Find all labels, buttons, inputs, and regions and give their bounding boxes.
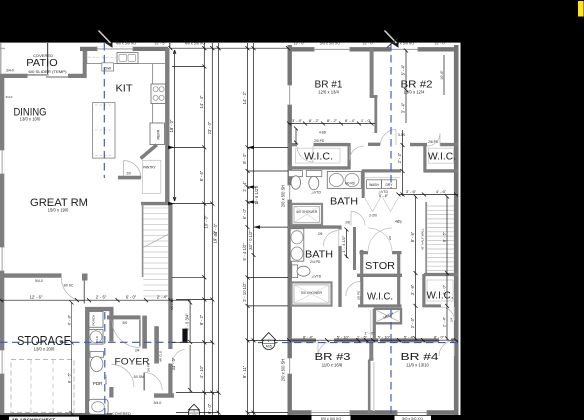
svg-text:2/6: 2/6 bbox=[318, 232, 323, 236]
svg-text:4@p: 4@p bbox=[395, 220, 402, 224]
svg-text:10'-6": 10'-6" bbox=[440, 70, 444, 80]
wall storage south bbox=[0, 413, 112, 418]
svg-text:BR #1: BR #1 bbox=[315, 78, 343, 90]
wall br3/br4 divider lower bbox=[368, 360, 371, 414]
door wic1 2/0 arc bbox=[297, 146, 313, 162]
wall bath2 east bbox=[338, 246, 341, 307]
toilet main bath 1 bbox=[289, 170, 303, 176]
svg-text:3/4-0: 3/4-0 bbox=[6, 95, 13, 99]
door br3 arc bbox=[318, 341, 334, 357]
svg-text:4 BD: 4 BD bbox=[319, 130, 327, 134]
window br2 top 5/0 bbox=[391, 47, 418, 52]
svg-text:5/0 SHOWER: 5/0 SHOWER bbox=[296, 210, 317, 214]
svg-text:19' - 0": 19' - 0" bbox=[169, 119, 174, 132]
svg-text:8' - 4": 8' - 4" bbox=[345, 118, 356, 123]
pantry shelves dashed bbox=[142, 160, 161, 193]
window br1 west wall bbox=[287, 85, 292, 105]
svg-text:W.I.C.: W.I.C. bbox=[428, 151, 456, 162]
stairs plan2 south wall bbox=[424, 273, 458, 276]
wall kitchen west (patio east) bbox=[83, 48, 87, 78]
window kitchen top bbox=[97, 47, 133, 52]
door bath2 arc bbox=[323, 231, 339, 247]
svg-text:1' - 0": 1' - 0" bbox=[364, 331, 375, 336]
door wic2 arc bbox=[427, 133, 440, 146]
wall plan2 east exterior bbox=[454, 45, 459, 415]
svg-text:2/0 PD: 2/0 PD bbox=[356, 290, 360, 300]
pdr sink bbox=[89, 399, 109, 414]
svg-text:2/0 x 5/0 SH: 2/0 x 5/0 SH bbox=[281, 359, 286, 382]
dim top window labels plan2 bbox=[116, 42, 447, 46]
svg-text:5' - 4": 5' - 4" bbox=[401, 64, 406, 75]
section line pdr vertical bbox=[104, 312, 106, 420]
door 2/0 pantry arc bbox=[124, 161, 141, 178]
vertical line plan1 NE corner to band bbox=[169, 43, 171, 48]
dim rotated texts plan1 bbox=[169, 95, 218, 414]
dim connector lines plan2 left bbox=[248, 147, 289, 412]
wall plan2 bottom bbox=[288, 410, 458, 415]
keynote symbol bottom plan1 bbox=[188, 404, 199, 418]
top dim ticks at corners bbox=[168, 46, 290, 50]
dim ticks plan1 right bbox=[202, 46, 220, 414]
dim rotated texts plan2 left bbox=[242, 91, 286, 381]
pdr washer circle bbox=[89, 330, 103, 345]
svg-text:13/0 x 10/0: 13/0 x 10/0 bbox=[20, 117, 41, 122]
wall plan1 east (kitchen/pantry) bbox=[165, 48, 169, 204]
svg-text:△VTD: △VTD bbox=[312, 191, 322, 195]
svg-text:5' - 10": 5' - 10" bbox=[378, 335, 391, 340]
wall plan2 west exterior bbox=[288, 45, 292, 415]
svg-text:8' - 0": 8' - 0" bbox=[242, 153, 247, 164]
door main bath arc bbox=[351, 212, 365, 226]
wall wic1 north bbox=[288, 143, 297, 146]
svg-text:13/0 x 20/0: 13/0 x 20/0 bbox=[34, 347, 55, 352]
dim ticks plan2 left bbox=[246, 46, 256, 414]
stairs plan1 top wall bbox=[141, 202, 170, 205]
svg-text:2/8: 2/8 bbox=[345, 221, 350, 225]
dim br1 horizontal y123.5 bbox=[288, 123, 375, 125]
dim vertical plan1 x218.6 bbox=[218, 43, 220, 415]
wash dry shelf bbox=[365, 176, 400, 178]
foyer closet west wall bbox=[142, 316, 147, 349]
kitchen counter right bbox=[152, 64, 154, 123]
svg-text:3/4-0: 3/4-0 bbox=[6, 69, 14, 73]
black crop band top bbox=[0, 0, 584, 43]
svg-text:3-0/0: 3-0/0 bbox=[398, 133, 405, 137]
wic4 shelves bbox=[427, 280, 453, 301]
svg-text:23' - 0": 23' - 0" bbox=[207, 121, 212, 134]
section line plan2 horizontal bbox=[258, 342, 461, 344]
refrigerator REFR bbox=[150, 123, 165, 145]
svg-text:3' - 6": 3' - 6" bbox=[406, 189, 417, 194]
wall great rm south bbox=[0, 273, 62, 277]
bottom-left clipped note text bbox=[9, 417, 79, 420]
svg-text:8' - 2": 8' - 2" bbox=[309, 118, 320, 123]
svg-text:5' - 10": 5' - 10" bbox=[337, 335, 350, 340]
counter backsplash dashes bbox=[88, 56, 116, 58]
wall br3/br4 divider upper bbox=[369, 340, 373, 359]
stairs plan1 up diagonal bbox=[143, 235, 168, 248]
svg-text:REFR: REFR bbox=[157, 129, 161, 139]
svg-text:8' - 6": 8' - 6" bbox=[199, 170, 204, 181]
pantry diagonal wall bbox=[141, 145, 157, 159]
washer box bbox=[367, 180, 382, 189]
wash dry closet walls bbox=[362, 169, 401, 172]
svg-text:1: 1 bbox=[193, 409, 195, 413]
door out-swing arc east wall bbox=[173, 350, 185, 363]
foyer closet east wall bbox=[154, 326, 159, 363]
wall pdr east upper bbox=[109, 309, 113, 342]
svg-text:6' - 0": 6' - 0" bbox=[242, 208, 247, 219]
wall hall west of wash bbox=[348, 143, 351, 170]
cut diagonal plan2 top bbox=[385, 31, 397, 44]
keynote symbol left bbox=[262, 333, 277, 350]
wic1 shelves bbox=[296, 148, 341, 163]
wall br3 north segments bbox=[288, 338, 458, 342]
wall plan2 top bbox=[288, 47, 458, 51]
svg-text:PATIO: PATIO bbox=[26, 57, 58, 69]
section line br2 vertical upper bbox=[390, 43, 392, 188]
svg-text:2/0 PD: 2/0 PD bbox=[314, 139, 325, 143]
wall pdr east lower stub bbox=[109, 387, 113, 398]
wic2 shelves bbox=[429, 148, 454, 163]
door br4 arc bbox=[439, 341, 455, 357]
svg-text:PDR: PDR bbox=[93, 381, 103, 386]
stairs plan1 west thin wall bbox=[142, 204, 144, 278]
window br3 west wall bbox=[287, 358, 292, 374]
svg-text:34' - 0 1/2": 34' - 0 1/2" bbox=[248, 230, 253, 250]
svg-text:2' - 10 1/2": 2' - 10 1/2" bbox=[242, 282, 247, 302]
window br1 top 5/0 bbox=[314, 47, 350, 52]
svg-text:8' - 5": 8' - 5" bbox=[410, 231, 415, 242]
wall patio bottom left segment bbox=[0, 74, 28, 78]
svg-text:2/0: 2/0 bbox=[127, 172, 132, 176]
dim br2 interior vertical x406 bbox=[403, 50, 407, 196]
svg-text:BR #4: BR #4 bbox=[401, 351, 439, 363]
svg-text:3' - 0": 3' - 0" bbox=[442, 284, 447, 295]
wic4 walls bbox=[422, 274, 425, 307]
svg-text:4' - 10": 4' - 10" bbox=[199, 365, 204, 378]
dim foyer interior vertical bbox=[189, 301, 191, 393]
vertical line patio cut bbox=[47, 43, 49, 74]
dim top horizontal line bbox=[170, 47, 288, 49]
bifold doors wash bbox=[364, 197, 399, 212]
door 6/0 slider patio bbox=[28, 75, 69, 77]
svg-text:BR #3: BR #3 bbox=[315, 351, 351, 363]
svg-text:34' - 0": 34' - 0" bbox=[171, 357, 176, 370]
svg-text:△VTD: △VTD bbox=[312, 275, 322, 279]
door 3/0 entry leaf + arc bbox=[143, 372, 145, 390]
wall plan1 east (stairs/foyer) bbox=[168, 204, 172, 350]
wall patio bottom right segment bbox=[68, 74, 86, 78]
section line kitchen vertical bbox=[103, 43, 105, 178]
wall patio top-left thin line bbox=[0, 43, 2, 75]
dim connector lines plan1 right bbox=[172, 67, 219, 413]
door 3/0 storage leaf + arc bbox=[61, 278, 84, 304]
dim interior storage x71.5 bbox=[71, 302, 73, 415]
window br4 bottom bbox=[397, 410, 427, 415]
range cooktop bbox=[151, 84, 166, 104]
svg-text:8' - 4": 8' - 4" bbox=[303, 335, 314, 340]
yellow sticky tab top-right bbox=[578, 1, 584, 17]
dim hall horizontal y194.5 bbox=[399, 194, 459, 196]
svg-text:BATH: BATH bbox=[305, 249, 333, 261]
window storage west wall bbox=[0, 350, 4, 374]
wall hall/stor west bbox=[353, 227, 356, 270]
svg-text:5/0: 5/0 bbox=[123, 321, 128, 325]
svg-text:DRY: DRY bbox=[386, 183, 394, 187]
svg-text:A05: A05 bbox=[266, 345, 272, 349]
cut wedge plan2 bbox=[391, 43, 399, 48]
dim plan1 bottom horizontal y297 bbox=[0, 299, 190, 301]
mech box bbox=[375, 309, 401, 324]
wall wic2 south bbox=[424, 169, 459, 172]
dim hall vertical x415.5 bbox=[415, 196, 417, 340]
svg-text:34' - 0": 34' - 0" bbox=[213, 223, 218, 236]
stor double door arcs bbox=[368, 228, 392, 252]
window br3 bottom bbox=[311, 410, 350, 415]
wall wic1 south bbox=[288, 166, 348, 169]
kitchen island bbox=[93, 103, 115, 159]
storage dashed rect bbox=[11, 360, 74, 413]
kitchen counter top bbox=[87, 51, 165, 64]
svg-text:2/4: 2/4 bbox=[449, 317, 453, 322]
wall kitchen top bbox=[80, 47, 168, 51]
window br1-bath west wall bbox=[287, 185, 292, 200]
bottom window label notches plan2 bbox=[312, 416, 351, 420]
svg-text:12' - 6": 12' - 6" bbox=[30, 295, 43, 300]
svg-text:3' - 4": 3' - 4" bbox=[292, 118, 303, 123]
svg-text:10' - 0": 10' - 0" bbox=[204, 215, 209, 228]
window dining west wall bbox=[0, 150, 4, 174]
door 5/0 foyer arc + leaf bbox=[112, 320, 140, 348]
wall wic3 north bbox=[357, 274, 402, 277]
svg-text:42" HALF WALL: 42" HALF WALL bbox=[421, 228, 425, 250]
svg-text:1' - 4 1/2": 1' - 4 1/2" bbox=[341, 235, 346, 252]
svg-text:STOR: STOR bbox=[365, 260, 395, 272]
black crop right bbox=[461, 0, 584, 420]
stor walls bbox=[360, 250, 363, 307]
dim br3 horizontal y340 bbox=[288, 339, 458, 341]
wall br2 door header bbox=[368, 143, 380, 146]
stairs plan2 treads bbox=[428, 206, 455, 271]
svg-text:1' - 6 1/2": 1' - 6 1/2" bbox=[254, 187, 259, 205]
door wic4 arc bbox=[441, 307, 455, 321]
svg-text:2' - 4": 2' - 4" bbox=[157, 295, 168, 300]
cut wedge plan1 bbox=[105, 43, 113, 48]
svg-text:4/0 RD: 4/0 RD bbox=[345, 182, 356, 186]
kitchen sink bbox=[117, 53, 138, 64]
wall pantry south stub bbox=[118, 176, 141, 180]
svg-text:9' - 11": 9' - 11" bbox=[242, 365, 247, 378]
svg-text:FOYER: FOYER bbox=[115, 357, 150, 368]
small dims br2 right of window bbox=[443, 55, 445, 95]
wall wic2 west + door header bbox=[423, 144, 426, 172]
svg-text:2/6: 2/6 bbox=[388, 235, 392, 240]
toilet main bath 2 bbox=[306, 170, 322, 176]
vanity main bath bbox=[327, 171, 361, 188]
svg-text:2' - 4": 2' - 4" bbox=[397, 152, 402, 163]
section line plan1 horizontal bbox=[0, 341, 188, 343]
dim bath2 vertical x346.5 bbox=[346, 229, 348, 258]
wall plan1 west exterior bbox=[0, 75, 4, 415]
svg-text:2' - 4": 2' - 4" bbox=[442, 316, 447, 327]
dim br1 left small vertical bbox=[295, 128, 297, 144]
wall below mech bbox=[373, 309, 376, 341]
wall wic3 south bbox=[358, 304, 402, 307]
svg-text:2' - 4": 2' - 4" bbox=[410, 317, 415, 328]
door br2 arc bbox=[381, 130, 397, 146]
section line br4 vertical lower bbox=[390, 310, 392, 420]
svg-text:11/0 x 13/10: 11/0 x 13/10 bbox=[406, 362, 429, 367]
svg-text:2-2/0: 2-2/0 bbox=[369, 214, 377, 218]
svg-text:2' - 6": 2' - 6" bbox=[96, 295, 107, 300]
svg-text:W.I.C.: W.I.C. bbox=[367, 291, 393, 302]
pdr top shelf box bbox=[89, 312, 103, 328]
svg-text:6' - 0": 6' - 0" bbox=[126, 295, 137, 300]
svg-text:3' - 4": 3' - 4" bbox=[401, 102, 406, 113]
dryer box bbox=[382, 180, 397, 189]
svg-text:3/4-0: 3/4-0 bbox=[154, 401, 162, 405]
wall divider jog bbox=[370, 95, 378, 98]
svg-text:FLR: FLR bbox=[95, 336, 99, 341]
svg-text:4' - 6": 4' - 6" bbox=[436, 189, 447, 194]
wall pdr north bbox=[86, 307, 114, 311]
svg-text:14' - 2": 14' - 2" bbox=[242, 91, 247, 104]
svg-text:14' - 4": 14' - 4" bbox=[199, 95, 204, 108]
door black jamb marker bbox=[182, 329, 187, 343]
svg-text:8' - 5": 8' - 5" bbox=[442, 231, 447, 242]
svg-text:9' - 2": 9' - 2" bbox=[199, 314, 204, 325]
svg-text:3/0 SM: 3/0 SM bbox=[134, 375, 144, 379]
bottom window labels plan2 bbox=[320, 416, 423, 420]
svg-text:1: 1 bbox=[268, 339, 270, 343]
dim plan2 left vertical x253.5 bbox=[253, 43, 255, 415]
shower bath2 bbox=[292, 282, 332, 305]
door pdr arc bbox=[111, 365, 133, 388]
svg-text:2/4: 2/4 bbox=[135, 348, 140, 352]
svg-text:1' - 0": 1' - 0" bbox=[361, 118, 372, 123]
svg-text:PORCH: PORCH bbox=[92, 315, 96, 326]
svg-text:15/0 x 19/0: 15/0 x 19/0 bbox=[48, 208, 69, 213]
dim plan2 left vertical x247.5 bbox=[247, 43, 249, 415]
dim vertical plan1 x212.3 bbox=[211, 43, 213, 415]
svg-text:9' - 0": 9' - 0" bbox=[207, 403, 212, 414]
svg-text:2' - 4": 2' - 4" bbox=[242, 181, 247, 192]
cut diagonal plan1 top bbox=[99, 31, 111, 44]
dim vertical kitchen interior x174.5 bbox=[174, 50, 176, 201]
svg-text:BATH: BATH bbox=[330, 195, 358, 207]
svg-text:BR #2: BR #2 bbox=[401, 78, 433, 90]
svg-text:8' - 0 3/4": 8' - 0 3/4" bbox=[185, 313, 190, 331]
wall divider lower bbox=[374, 97, 377, 134]
svg-text:KIT: KIT bbox=[116, 82, 134, 94]
pdr toilet bbox=[90, 352, 104, 358]
svg-text:2/0 x 5/0 SH: 2/0 x 5/0 SH bbox=[281, 185, 286, 208]
shower main bath bbox=[292, 204, 323, 225]
svg-text:5' - 4": 5' - 4" bbox=[404, 335, 415, 340]
svg-text:3' - 6": 3' - 6" bbox=[410, 284, 415, 295]
dim vertical plan1 x204.3 bbox=[203, 43, 205, 415]
svg-text:4/0 CLG: 4/0 CLG bbox=[159, 350, 163, 362]
svg-text:3/0 SC: 3/0 SC bbox=[64, 284, 74, 288]
stairs plan2 half wall bbox=[425, 202, 427, 273]
wall foyer south / entry bbox=[154, 393, 174, 397]
wall br1/br2 divider upper bbox=[370, 47, 374, 96]
svg-text:DW: DW bbox=[105, 65, 112, 70]
svg-text:5/4-0: 5/4-0 bbox=[35, 279, 43, 283]
door br1 arc bbox=[350, 146, 365, 161]
wall storage east / pdr west bbox=[85, 307, 90, 417]
svg-text:12/0 x 13/4: 12/0 x 13/4 bbox=[318, 90, 339, 95]
black crop bottom bbox=[0, 415, 584, 420]
dishwasher DW bbox=[102, 63, 114, 71]
dim arrow flags between plans bbox=[168, 146, 260, 229]
window great rm west wall bbox=[0, 247, 4, 271]
stairs plan1 treads bbox=[144, 208, 169, 280]
toilet bath2 bbox=[292, 265, 298, 278]
dim hall vertical x447 bbox=[446, 197, 448, 341]
wall foyer north bbox=[107, 315, 141, 319]
svg-text:5' - 4 1/2": 5' - 4 1/2" bbox=[242, 243, 247, 261]
wall bath2 north bbox=[288, 225, 342, 228]
svg-text:PANTRY: PANTRY bbox=[143, 165, 157, 169]
svg-text:11/0 x 16/8: 11/0 x 16/8 bbox=[322, 362, 343, 367]
vanity bath2 bbox=[290, 229, 304, 262]
door wic3 arc bbox=[346, 282, 361, 297]
svg-text:W.I.C.: W.I.C. bbox=[304, 151, 333, 162]
svg-text:8' - 5": 8' - 5" bbox=[66, 372, 71, 383]
svg-text:WASH: WASH bbox=[369, 183, 379, 187]
svg-text:2/4 PD: 2/4 PD bbox=[310, 260, 321, 264]
svg-text:W.I.C.: W.I.C. bbox=[427, 290, 454, 301]
svg-text:8' - 0": 8' - 0" bbox=[434, 335, 445, 340]
svg-text:8' - 2": 8' - 2" bbox=[327, 118, 338, 123]
svg-text:6' - 8": 6' - 8" bbox=[66, 314, 71, 325]
